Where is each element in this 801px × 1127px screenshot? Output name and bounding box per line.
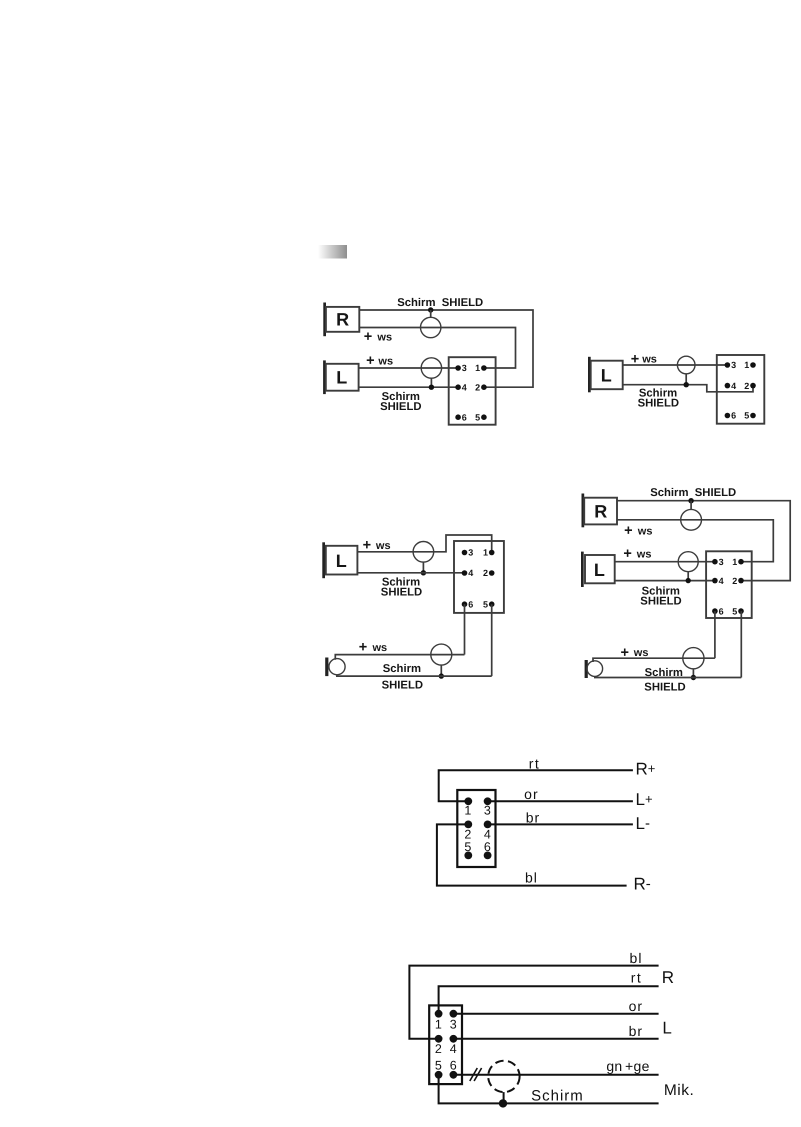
svg-text:1: 1 [483,548,488,558]
mic ws wire [335,655,464,660]
stub L circle [687,572,689,581]
svg-text:5: 5 [744,411,749,421]
C6 pin dot 6 [450,1071,458,1079]
svg-text:Schirm: Schirm [531,1088,584,1105]
junction dot shield [499,1099,507,1107]
svg-text:+: + [620,645,628,661]
wire br to L [453,1038,658,1040]
C4 pin dot 5 [738,608,744,614]
connector block C6 [429,1005,462,1084]
svg-text:5: 5 [483,599,488,609]
C1 pin dot 4 [455,384,461,390]
svg-text:4: 4 [719,576,724,586]
svg-text:3: 3 [468,548,473,558]
C5 pin dot 2 [464,821,472,829]
svg-text:2: 2 [744,381,749,391]
svg-text:2: 2 [732,576,737,586]
C2 pin dot 1 [750,362,756,368]
junction dot L shield [421,570,426,575]
svg-text:+: + [623,546,631,562]
svg-text:ws: ws [377,356,393,368]
C6 pin dot 3 [450,1010,458,1018]
wire pin 5 down [740,611,742,677]
wire or to L [453,1013,658,1015]
mic circle [587,661,603,677]
C5 pin dot 6 [484,852,492,860]
speaker R box [326,307,359,332]
junction dot R shield [688,498,693,503]
svg-text:+: + [364,329,372,345]
svg-text:br: br [629,1023,643,1039]
wire gn+ge to Mik [453,1074,658,1076]
C6 pin dot 5 [435,1071,443,1079]
svg-text:br: br [526,810,540,826]
wire L Schirm to pin 4 [359,386,460,388]
svg-text:gn+ge: gn+ge [606,1058,649,1074]
speaker L box [326,546,358,575]
svg-text:R+: R+ [636,760,656,779]
speaker L terminal bar [581,552,584,587]
cable circle [677,356,695,374]
svg-text:R: R [336,310,349,330]
svg-text:4: 4 [450,1042,457,1056]
svg-text:1: 1 [744,360,749,370]
svg-text:bl: bl [525,870,538,886]
C1 pin dot 3 [455,365,461,371]
C6 pin dot 1 [435,1010,443,1018]
svg-text:+: + [363,538,371,554]
C5 pin dot 1 [464,797,472,805]
svg-text:Schirm: Schirm [383,663,421,675]
mic ws wire [593,658,715,662]
C1 pin dot 1 [481,365,487,371]
wire L Schirm to pin 4 [357,572,466,574]
svg-text:R: R [662,968,674,987]
connector block C1 [449,357,496,425]
svg-text:ws: ws [637,525,653,537]
C1 pin dot 5 [481,414,487,420]
speaker L terminal bar [322,542,325,578]
C1 pin dot 6 [455,414,461,420]
C3 pin dot 6 [462,601,468,607]
C2 pin dot 2 [750,383,756,389]
svg-text:6: 6 [731,411,736,421]
wire rt to R+ [439,770,633,801]
svg-text:1: 1 [435,1017,442,1031]
C2 pin dot 6 [725,413,731,419]
speaker L box [591,361,623,390]
stub mic circle [692,669,694,678]
junction dot R shield [428,307,433,312]
svg-text:L: L [662,1019,671,1038]
wire rt to R [439,986,659,1013]
speaker R box [584,498,617,525]
wire pin 5 down [491,604,493,676]
stub mic circle [440,665,442,676]
wire L ws to pin 3 [615,561,716,563]
svg-text:3: 3 [731,360,736,370]
svg-text:L: L [594,560,605,580]
svg-text:3: 3 [462,363,467,373]
svg-text:SHIELD: SHIELD [382,680,423,692]
stub L circle [422,562,424,573]
junction dot L shield [429,385,434,390]
svg-text:L: L [336,551,347,571]
C2 pin dot 5 [750,413,756,419]
C4 pin dot 4 [712,578,718,584]
svg-text:rt: rt [631,970,643,986]
wire bl to R [409,966,658,1039]
svg-text:ws: ws [641,354,657,366]
svg-text:6: 6 [719,606,724,616]
cable circle R [421,317,441,337]
connector block C2 [717,355,765,424]
C6 pin dot 2 [435,1035,443,1043]
C3 pin dot 2 [489,570,495,576]
svg-text:+: + [366,353,374,369]
C5 pin dot 4 [484,821,492,829]
wire bl to R- [437,824,627,885]
svg-text:+: + [631,351,639,367]
mic terminal bar [325,658,328,677]
svg-text:bl: bl [630,950,643,966]
speaker L box [585,555,615,583]
wire R ws to pin 1 [359,328,515,369]
mic terminal bar [585,660,588,678]
svg-text:ws: ws [375,540,391,552]
wire R Schirm to pin 2 [617,501,790,581]
C3 pin dot 1 [489,550,495,556]
svg-text:ws: ws [376,331,392,343]
wire br to L- [488,823,633,825]
svg-text:+: + [624,523,632,539]
svg-text:4: 4 [462,382,467,392]
svg-text:6: 6 [450,1059,457,1073]
svg-text:L-: L- [636,814,650,833]
svg-text:rt: rt [529,755,541,771]
wire pin 6 down [464,604,466,654]
svg-text:SHIELD: SHIELD [381,587,422,599]
svg-text:2: 2 [483,568,488,578]
C5 pin dot 3 [484,797,492,805]
mic Schirm wire [594,677,741,679]
wire pin 6 down [714,611,716,658]
wire R Schirm to pin 2 [359,310,533,387]
wire L Schirm jog to pin 2 [623,385,753,392]
cable circle mic [683,648,704,669]
svg-text:6: 6 [462,412,467,422]
C2 pin dot 4 [725,383,731,389]
connector block C3 [454,541,504,613]
wire L ws over-route to pin 1 [357,535,491,553]
wire L ws to pin 3 [359,367,460,369]
C5 pin dot 5 [464,852,472,860]
connector block C5 [457,790,495,867]
speaker R terminal bar [582,494,585,528]
grey gradient bar [318,245,347,259]
C3 pin dot 5 [489,601,495,607]
junction dot mic shield [691,675,696,680]
connector block C4 [706,551,752,618]
svg-text:ws: ws [636,549,652,561]
wire Schirm bottom [439,1075,659,1104]
mic Schirm wire [336,675,492,677]
cable circle L [421,358,441,378]
speaker R terminal bar [323,303,326,337]
C4 pin dot 1 [738,559,744,565]
wire or to L+ [488,800,633,802]
svg-text:5: 5 [732,606,737,616]
junction dot L shield [686,578,691,583]
svg-text:R-: R- [634,875,651,894]
C2 pin dot 3 [725,362,731,368]
svg-text:1: 1 [732,557,737,567]
stub L circle [430,378,432,387]
svg-text:ws: ws [633,647,649,659]
svg-text:3: 3 [719,557,724,567]
cable circle L [413,542,434,563]
svg-text:L+: L+ [636,790,653,809]
svg-text:6: 6 [468,599,473,609]
C4 pin dot 6 [712,608,718,614]
mic dashed circle [488,1061,519,1092]
cable break slashes [470,1068,482,1081]
stub R circle [690,501,692,510]
svg-text:SHIELD: SHIELD [640,595,681,607]
cable circle mic [431,644,452,665]
svg-text:2: 2 [435,1042,442,1056]
C4 pin dot 2 [738,578,744,584]
C6 pin dot 4 [450,1035,458,1043]
stub R circle [430,310,432,317]
svg-text:Schirm SHIELD: Schirm SHIELD [650,487,736,499]
C3 pin dot 4 [462,570,468,576]
C1 pin dot 2 [481,384,487,390]
svg-text:1: 1 [464,803,471,817]
speaker L box [326,364,359,391]
C3 pin dot 3 [462,550,468,556]
speaker L terminal bar [588,357,591,393]
svg-text:ws: ws [372,642,388,654]
junction dot mic shield [439,673,444,678]
mic circle [329,659,345,675]
C4 pin dot 3 [712,559,718,565]
svg-text:2: 2 [475,382,480,392]
svg-text:4: 4 [731,381,736,391]
svg-text:Mik.: Mik. [664,1082,694,1099]
svg-text:L: L [601,366,612,386]
svg-text:R: R [594,501,607,521]
svg-text:or: or [629,998,643,1014]
svg-text:3: 3 [484,803,491,817]
svg-text:SHIELD: SHIELD [644,681,685,693]
svg-text:Schirm: Schirm [645,667,683,679]
svg-text:5: 5 [435,1059,442,1073]
svg-text:+: + [359,640,367,656]
svg-text:SHIELD: SHIELD [638,397,679,409]
svg-text:L: L [336,368,347,388]
svg-text:5: 5 [475,412,480,422]
svg-text:1: 1 [475,363,480,373]
wire L Schirm to pin 4 [615,580,716,582]
junction dot shield [684,382,689,387]
wire R ws to pin 1 [617,520,773,562]
speaker L terminal bar [323,360,326,394]
cable circle L [678,552,698,572]
svg-text:Schirm SHIELD: Schirm SHIELD [397,297,483,309]
cable circle R [681,509,702,530]
svg-text:or: or [524,786,538,802]
stub mic to shield [503,1092,505,1103]
svg-text:4: 4 [468,568,473,578]
svg-text:3: 3 [450,1017,457,1031]
wire L ws to pin 3 [623,364,729,366]
svg-text:SHIELD: SHIELD [380,401,421,413]
stub circle [685,374,687,385]
